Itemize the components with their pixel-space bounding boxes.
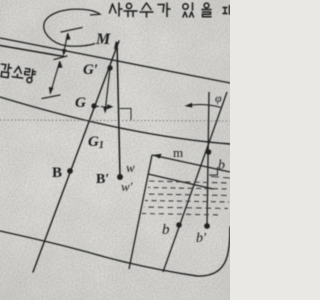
svg-text:G: G <box>75 95 86 111</box>
svg-text:b: b <box>162 222 170 238</box>
svg-text:b: b <box>218 158 225 173</box>
svg-text:B′: B′ <box>96 172 109 187</box>
svg-text:M: M <box>95 31 111 48</box>
svg-text:G′: G′ <box>83 62 98 78</box>
svg-text:m: m <box>173 145 183 160</box>
svg-text:B: B <box>52 165 62 181</box>
svg-text:φ: φ <box>215 91 222 105</box>
svg-text:w: w <box>126 160 135 175</box>
svg-text:b′: b′ <box>196 231 207 246</box>
svg-text:w′: w′ <box>121 179 133 194</box>
